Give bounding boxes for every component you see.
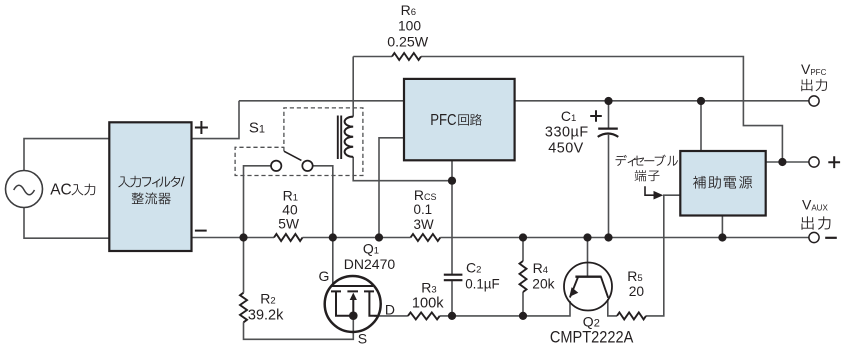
relay coil core lines <box>338 116 341 160</box>
svg-text:AC: AC <box>50 181 72 198</box>
wire R5 to disable terminal of aux supply <box>646 195 680 316</box>
wire PFC回路 left pin down to bottom rail <box>379 138 404 238</box>
resistor R6 <box>392 53 421 60</box>
svg-text:20k: 20k <box>532 276 554 291</box>
svg-text:5W: 5W <box>278 216 299 231</box>
terminal aux + output <box>809 157 819 167</box>
svg-text:450V: 450V <box>548 140 583 156</box>
junction node coil/PFC bottom pin <box>448 177 456 185</box>
disable terminal arrow <box>645 186 663 199</box>
wire bottom rail RCS to VAUX- terminal <box>440 237 809 239</box>
wire rectifier + output up to top rail <box>192 101 240 139</box>
label S1 <box>249 120 265 137</box>
svg-text:S: S <box>358 331 367 347</box>
label Q1 DN2470 <box>344 240 396 272</box>
wire R6 left to relay coil top <box>353 57 392 117</box>
label + at aux output <box>828 156 840 168</box>
wire relay coil bottom to PFC bottom pin <box>353 157 452 181</box>
junction node R1-left/S1/R2 <box>239 233 247 241</box>
relay S1 dashed outline <box>235 108 363 176</box>
resistor R3 <box>408 312 440 319</box>
label R6 100 0.25W <box>387 2 429 50</box>
junction node Q2 base <box>583 233 591 241</box>
label C2 0.1uF <box>465 259 500 291</box>
junction node aux top <box>697 97 705 105</box>
switch S1 contacts <box>271 151 313 171</box>
transistor Q1 DN2470 depletion MOSFET <box>325 276 381 332</box>
wire S1 right contact down to rail <box>313 166 333 238</box>
wire lower row R3 to Q2 emitter <box>440 301 570 316</box>
svg-text:0.1: 0.1 <box>414 202 433 217</box>
label AC input <box>50 181 95 198</box>
terminal VAUX output <box>809 232 819 242</box>
junction node aux + out <box>778 158 786 166</box>
svg-text:G: G <box>319 268 330 284</box>
wire R4 leads <box>522 238 524 316</box>
junction node C2 bottom <box>448 312 456 320</box>
svg-text:0.25W: 0.25W <box>387 34 429 50</box>
label disable terminal <box>616 155 678 182</box>
wire aux supply bottom pin to bottom rail <box>721 216 723 238</box>
svg-text:RCS: RCS <box>414 187 437 203</box>
block input filter / rectifier <box>109 122 191 251</box>
wire Q1 gate <box>332 238 334 287</box>
svg-text:/: / <box>181 175 185 190</box>
label Q2 CMPT2222A <box>550 314 633 347</box>
label - at VAUX output <box>825 237 837 239</box>
svg-text:CMPT2222A: CMPT2222A <box>550 329 633 347</box>
svg-text:20: 20 <box>629 284 645 299</box>
junction node C1 top <box>604 97 612 105</box>
wire R2 top lead <box>243 238 245 293</box>
svg-text:R2: R2 <box>260 291 275 307</box>
junction node R1-right/S1/Q1-gate <box>329 233 337 241</box>
svg-text:PFC: PFC <box>430 112 456 129</box>
svg-text:39.2k: 39.2k <box>248 307 284 323</box>
svg-text:R4: R4 <box>533 260 548 276</box>
wire AC source to input filter (bottom) <box>24 207 110 238</box>
wire R1 leads on bottom rail <box>244 237 333 239</box>
svg-text:C2: C2 <box>466 259 481 275</box>
wire PFC回路 bottom pin down to C2 <box>451 160 453 275</box>
label VAUX output <box>802 197 831 230</box>
label - at rectifier output <box>195 230 207 232</box>
wire AC source to input filter (top) <box>24 139 110 171</box>
wire Q2 collector to R5 <box>608 299 617 316</box>
label R4 20k <box>532 260 554 292</box>
resistor R1 <box>274 234 303 241</box>
wire C1 bottom lead <box>608 135 610 238</box>
wire Q1 drain to R3 <box>374 315 408 317</box>
terminal VPFC output <box>809 96 819 106</box>
label VPFC output <box>801 61 827 91</box>
label C1 330uF 450V <box>545 108 589 157</box>
AC source symbol <box>6 171 43 208</box>
wire Q2 base from bottom rail <box>587 238 589 277</box>
junction node PFC left pin <box>375 233 383 241</box>
transistor Q2 CMPT2222A <box>564 263 612 311</box>
svg-text:S1: S1 <box>249 120 265 137</box>
svg-text:VAUX: VAUX <box>802 197 828 213</box>
junction node R4 bottom <box>519 312 527 320</box>
svg-text:R5: R5 <box>627 268 642 284</box>
relay coil (inductor) <box>345 117 354 157</box>
label R2 39.2k <box>248 291 284 324</box>
wire R2 bottom to Q1 source <box>244 315 354 340</box>
block auxiliary power supply <box>680 151 765 216</box>
wire bottom rail R1 to RCS <box>333 237 411 239</box>
resistor R2 <box>240 293 247 323</box>
junction node C1 bottom <box>604 233 612 241</box>
svg-text:R1: R1 <box>283 188 298 204</box>
wire C1 top lead <box>608 101 610 129</box>
svg-text:100: 100 <box>398 18 421 33</box>
label R3 100k <box>412 279 444 311</box>
svg-text:Q2: Q2 <box>583 314 600 330</box>
svg-text:Q1: Q1 <box>363 240 379 256</box>
capacitor C1 (polarized) <box>598 129 619 137</box>
capacitor C2 <box>444 275 463 281</box>
wire aux supply top pin to top rail <box>700 101 702 151</box>
svg-text:0.1µF: 0.1µF <box>465 276 500 291</box>
label + at rectifier output <box>195 121 208 134</box>
junction node R4 top <box>519 233 527 241</box>
wire top rail (+) to VPFC terminal <box>239 100 810 102</box>
resistor RCS (current sense) <box>411 234 441 241</box>
label + at C1 <box>590 110 602 122</box>
svg-text:DN2470: DN2470 <box>344 256 396 272</box>
label RCS 0.1 3W <box>414 187 437 232</box>
label R1 40 5W <box>278 188 299 232</box>
resistor R4 <box>520 261 527 292</box>
svg-text:R3: R3 <box>421 279 436 295</box>
svg-text:40: 40 <box>282 203 298 218</box>
wire C2 bottom lead <box>451 280 453 316</box>
wire R6 right down to aux + node <box>421 57 782 163</box>
svg-text:D: D <box>385 302 395 318</box>
wire S1 left contact <box>244 166 271 238</box>
resistor R5 <box>617 312 646 319</box>
svg-text:100k: 100k <box>412 295 444 311</box>
svg-text:3W: 3W <box>414 217 434 232</box>
wire aux supply + output <box>766 161 810 163</box>
svg-text:330µF: 330µF <box>545 125 589 141</box>
wire bottom rail from rectifier - to node R1 left <box>192 237 244 239</box>
block PFC circuit <box>404 79 515 160</box>
svg-text:C1: C1 <box>561 108 576 124</box>
svg-text:R6: R6 <box>401 2 416 18</box>
svg-text:VPFC: VPFC <box>801 61 827 77</box>
junction node aux bottom <box>718 233 726 241</box>
label R5 20 <box>627 268 644 299</box>
